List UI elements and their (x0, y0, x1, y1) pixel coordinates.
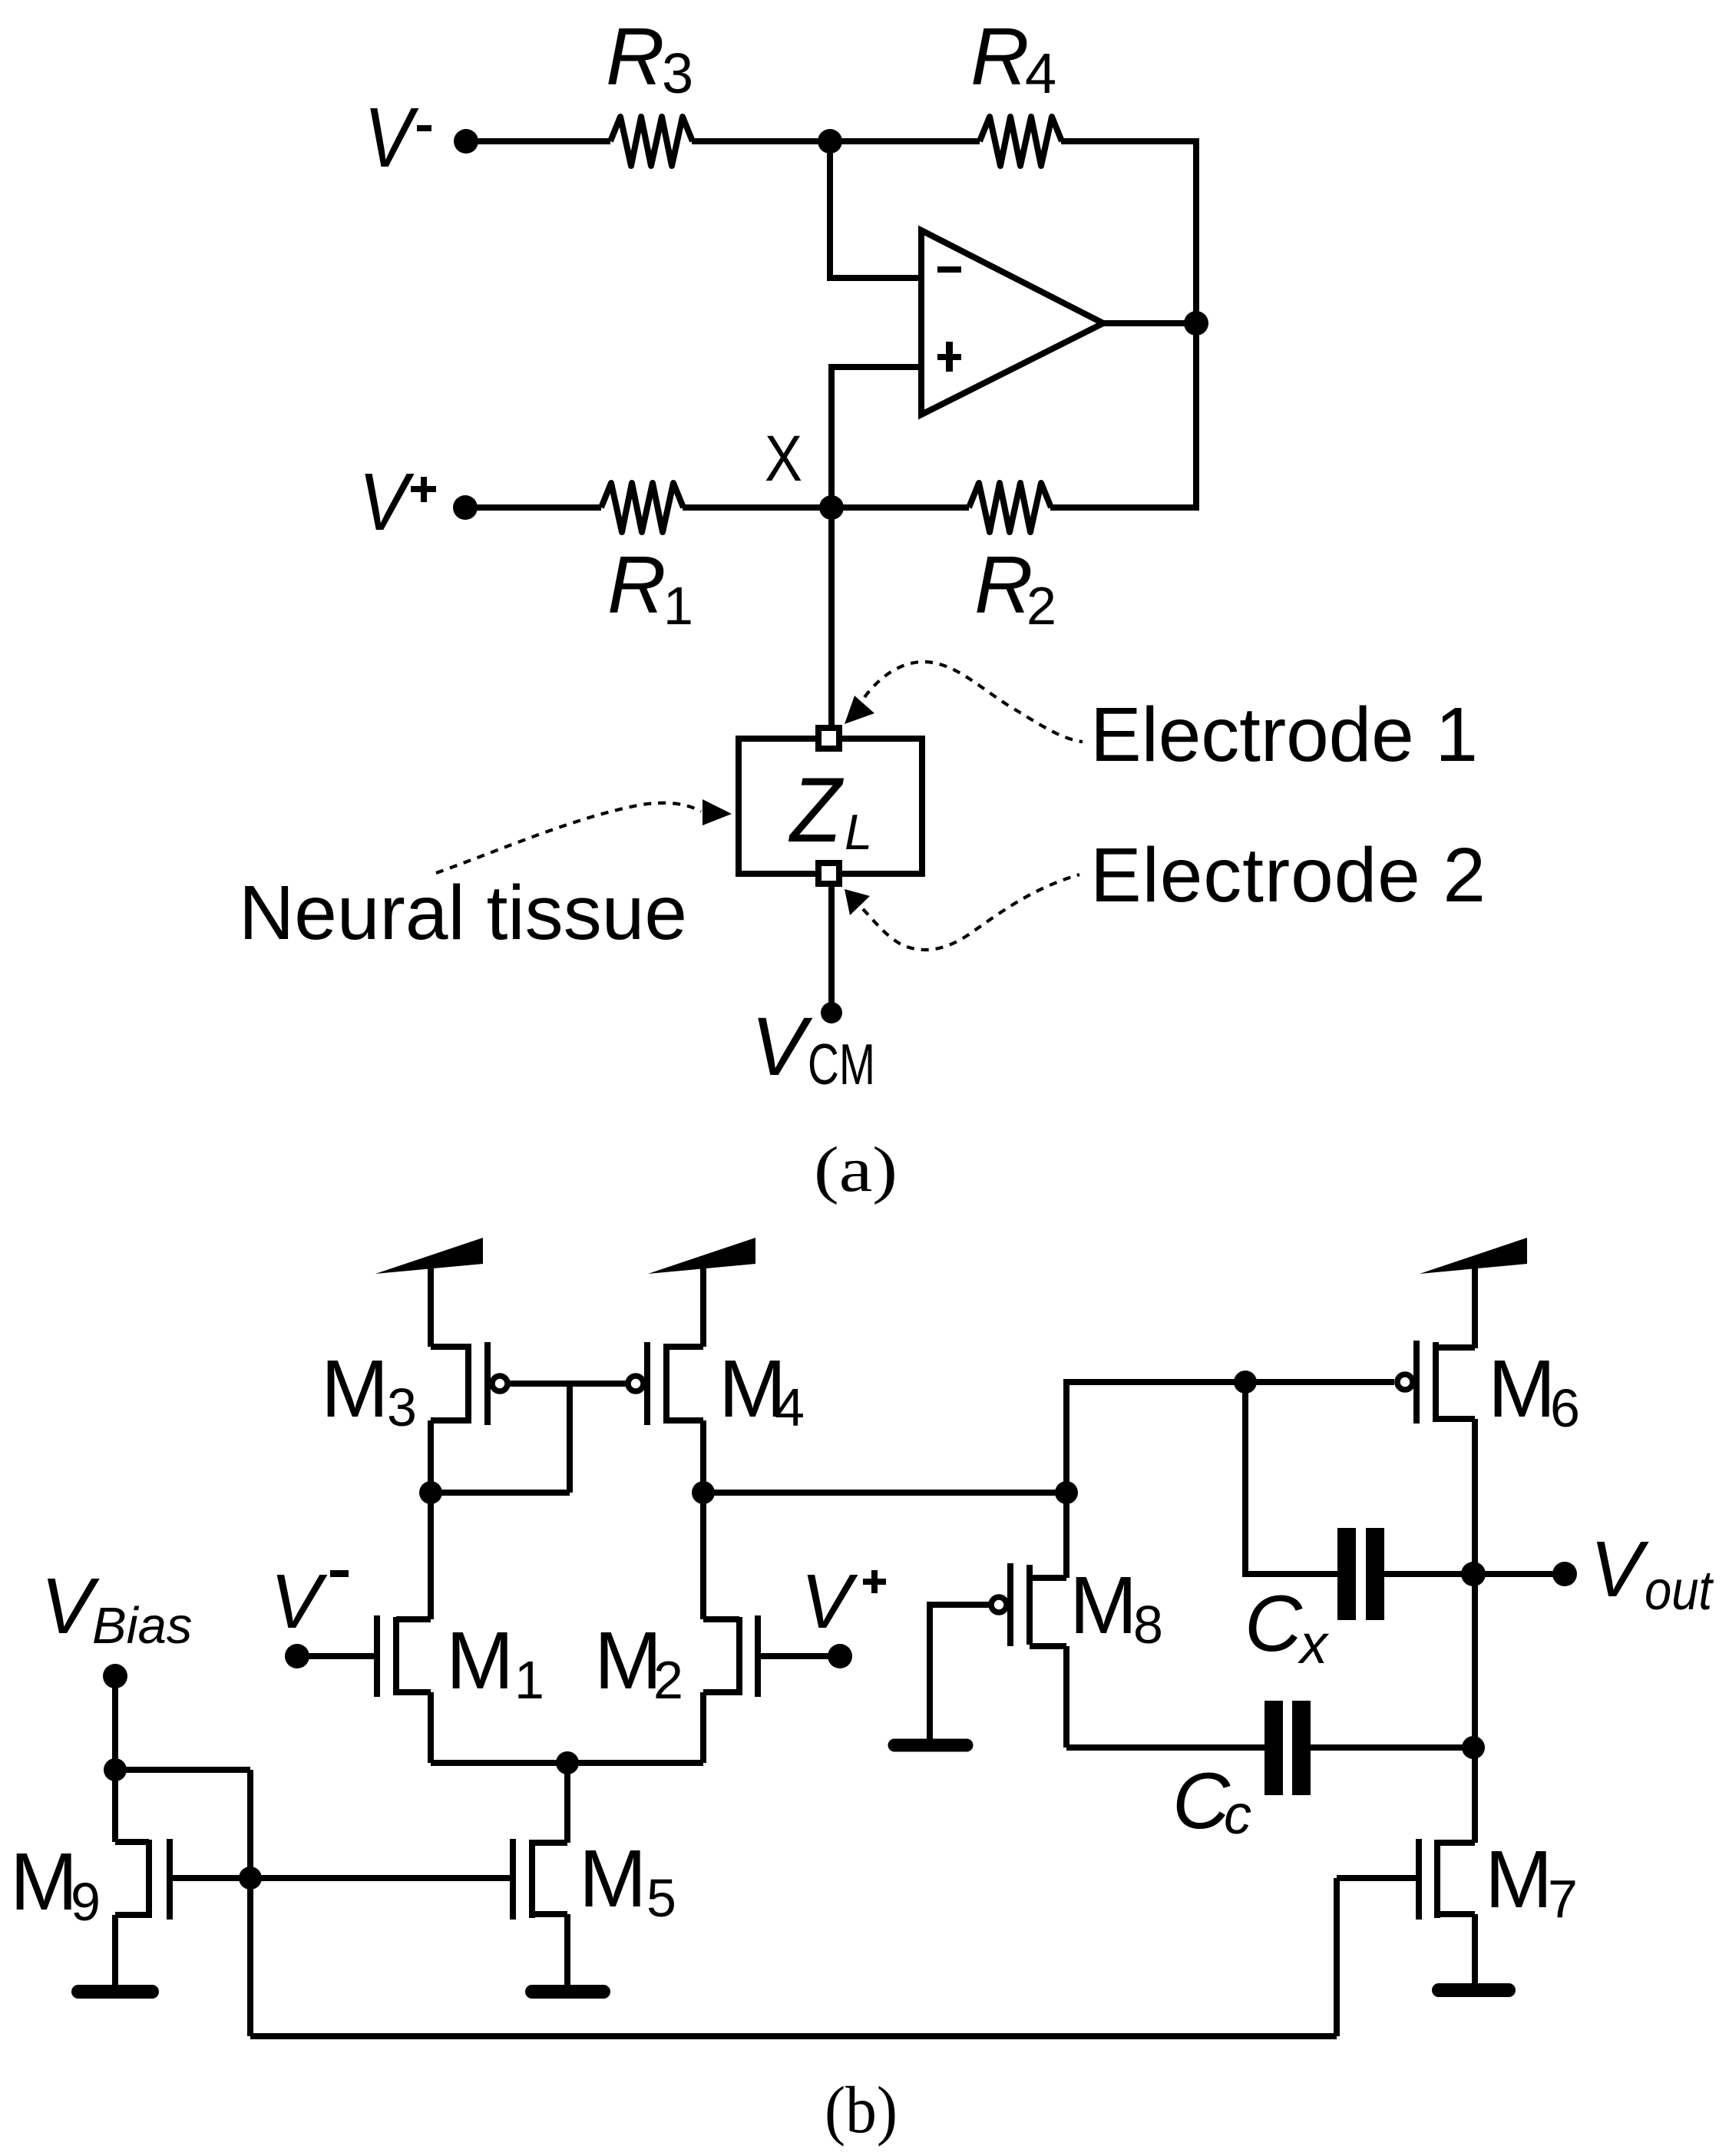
ground under M7 (1439, 1983, 1509, 1997)
wire M9 drain to gate column (115, 1767, 250, 1773)
wire tail to M5 (564, 1763, 570, 1843)
load box Z_L (739, 739, 922, 874)
label M6 (1488, 1344, 1580, 1438)
label M3 (321, 1344, 417, 1437)
pointer to neural tissue (703, 799, 732, 825)
wire node up and to M6 gate (1066, 1382, 1394, 1493)
M7 gate wire (1337, 1875, 1417, 1881)
svg-text:V: V (364, 91, 419, 185)
wire M3 gate to M4 gate (508, 1381, 627, 1387)
svg-text:M: M (10, 1837, 78, 1927)
bias rail (250, 2033, 1337, 2039)
transistor M7 (1416, 1839, 1422, 1920)
pointer to electrode 2 (845, 889, 870, 915)
svg-text:6: 6 (1550, 1378, 1580, 1438)
svg-text:9: 9 (71, 1872, 101, 1932)
transistor M8 (991, 1597, 1007, 1612)
label M7 (1485, 1834, 1578, 1929)
svg-text:Bias: Bias (92, 1597, 192, 1655)
VDD symbol above M4 (648, 1238, 755, 1274)
wire M1 source down (428, 1692, 434, 1763)
node M3 drain (419, 1481, 442, 1504)
label Cc (1172, 1757, 1251, 1846)
label Vout (1590, 1525, 1714, 1622)
ground under M5 (532, 1985, 603, 1999)
wire down to Cx (1245, 1382, 1337, 1574)
svg-text:C: C (1245, 1579, 1303, 1668)
svg-text:x: x (1298, 1614, 1330, 1675)
svg-text:7: 7 (1548, 1869, 1578, 1929)
svg-text:3: 3 (662, 41, 693, 105)
Cc output node (1462, 1736, 1485, 1759)
svg-text:V: V (359, 457, 415, 547)
wire node to op-amp inverting input (830, 141, 921, 278)
label M8 (1069, 1560, 1163, 1655)
transistor M5 (510, 1839, 516, 1920)
svg-text:R: R (970, 12, 1030, 102)
svg-text:out: out (1645, 1560, 1714, 1622)
Vout node (1461, 1562, 1486, 1586)
transistor M1 (374, 1615, 380, 1697)
label M1 (446, 1615, 544, 1710)
wire Cc to output column (1311, 1744, 1473, 1751)
capacitor Cc (1265, 1701, 1283, 1795)
wire to Vout terminal (1473, 1571, 1565, 1577)
wire V- to R3 (466, 138, 610, 144)
label R1 (607, 540, 693, 636)
svg-text:M: M (579, 1834, 646, 1924)
wire M3 drain vertical (428, 1420, 434, 1619)
svg-text:M: M (1069, 1560, 1137, 1651)
terminal V+ (a) (453, 495, 478, 520)
svg-text:c: c (1224, 1784, 1251, 1846)
transistor M9 (167, 1839, 173, 1920)
terminal V- (b) (285, 1644, 309, 1668)
svg-text:1: 1 (514, 1650, 544, 1710)
svg-text:2: 2 (653, 1650, 683, 1710)
label M4 (719, 1344, 805, 1437)
svg-text:V: V (801, 1559, 858, 1645)
wire VBias down (112, 1676, 118, 1842)
wire gate tie down to drain line (567, 1384, 573, 1493)
wire op-amp output (1103, 320, 1196, 326)
tail wire (431, 1760, 703, 1766)
wire M3 drain to gate tie (431, 1490, 570, 1496)
wire M8 drain up (1063, 1493, 1069, 1578)
svg-text:V: V (270, 1559, 328, 1645)
svg-text:3: 3 (387, 1377, 417, 1437)
wire V+ to R1 (465, 504, 601, 511)
svg-text:8: 8 (1133, 1595, 1163, 1655)
svg-text:M: M (594, 1615, 662, 1706)
svg-text:Electrode 1: Electrode 1 (1090, 692, 1478, 778)
svg-text:2: 2 (1026, 576, 1056, 636)
op-amp U1 (921, 230, 1103, 415)
terminal VCM (821, 1002, 842, 1023)
wire M4 drain vertical (700, 1420, 706, 1619)
svg-text:M: M (1485, 1834, 1552, 1925)
wire node to R4 (830, 138, 980, 144)
terminal Vout (1552, 1562, 1577, 1586)
wire M8 source down (1063, 1646, 1069, 1748)
resistor R2 (969, 483, 1051, 532)
pointer to electrode 1 (845, 696, 874, 724)
label M9 (10, 1837, 101, 1932)
terminal VBias (103, 1664, 127, 1688)
svg-text:V: V (1590, 1525, 1649, 1613)
svg-text:5: 5 (646, 1868, 676, 1928)
node X (819, 495, 844, 520)
wire Cx to Vout node (1384, 1571, 1473, 1577)
svg-text:M: M (1488, 1344, 1555, 1434)
label M2 (594, 1615, 683, 1710)
wire M7 source to ground (1472, 1914, 1478, 1983)
svg-text:R: R (974, 540, 1033, 630)
svg-text:Z: Z (788, 759, 844, 861)
wire M2 source down (700, 1692, 706, 1763)
tail node (556, 1751, 579, 1774)
wire R1 to R2 through X (683, 504, 969, 511)
svg-text:L: L (845, 804, 872, 860)
transistor M4 (628, 1376, 643, 1391)
M8 gate wire to ground (930, 1605, 990, 1739)
label M5 (579, 1834, 676, 1928)
wire output to R2 (1050, 323, 1196, 508)
electrode 1 square (818, 728, 839, 749)
bias gate line M9-M5 (170, 1875, 513, 1881)
label VBias (41, 1562, 192, 1655)
svg-text:M: M (321, 1344, 388, 1434)
ground under M9 (78, 1985, 152, 1999)
svg-text:Electrode 2: Electrode 2 (1090, 832, 1486, 918)
VDD symbol above M3 (375, 1238, 483, 1274)
label VCM (751, 1000, 875, 1096)
node to Cx branch (1234, 1371, 1257, 1394)
wire X to electrode 1 (828, 508, 835, 726)
terminal V+ (b) (828, 1644, 852, 1668)
wire M6 drain down to M7 (1472, 1419, 1478, 1843)
label Cx (1245, 1579, 1330, 1675)
wire M8 to Cc (1066, 1744, 1265, 1751)
output node dot (1184, 311, 1208, 336)
svg-text:4: 4 (1025, 41, 1056, 105)
capacitor Cx (1337, 1528, 1356, 1620)
label R2 (974, 540, 1056, 636)
svg-text:V: V (41, 1562, 100, 1650)
svg-text:X: X (765, 422, 802, 494)
resistor R3 (610, 117, 693, 166)
transistor M3 (431, 1344, 468, 1350)
wire R3 to node (692, 138, 830, 144)
label R3 (606, 12, 693, 105)
terminal V- (a) (454, 129, 478, 154)
svg-text:V: V (751, 1000, 813, 1093)
svg-text:M: M (446, 1615, 514, 1706)
transistor M6 (1397, 1374, 1413, 1390)
label R4 (970, 12, 1056, 105)
svg-text:Neural tissue: Neural tissue (239, 870, 687, 956)
resistor R4 (980, 117, 1062, 166)
svg-text:(a): (a) (814, 1134, 898, 1205)
svg-text:R: R (607, 540, 666, 630)
wire gate column down (247, 1770, 253, 2036)
transistor M2 (755, 1615, 761, 1697)
node M9 drain (104, 1758, 127, 1781)
wire op-amp noninverting input to node X (831, 367, 921, 508)
wire M5 source to ground (564, 1914, 570, 1985)
svg-text:R: R (606, 12, 665, 102)
node M4 drain (692, 1481, 715, 1504)
wire M4 drain to second stage (703, 1490, 1066, 1496)
wire R4 to feedback corner (1061, 141, 1196, 323)
ground at M8 gate (894, 1739, 967, 1752)
electrode 2 square (818, 863, 839, 884)
svg-text:1: 1 (663, 576, 693, 636)
wire electrode 2 to VCM (828, 885, 835, 1013)
svg-text:4: 4 (775, 1377, 805, 1437)
node on bias gate line (239, 1867, 262, 1890)
junction top node (818, 129, 842, 154)
VDD symbol above M6 (1420, 1238, 1527, 1274)
resistor R1 (601, 483, 683, 532)
wire M9 source to ground (112, 1915, 118, 1985)
svg-text:C: C (1172, 1757, 1231, 1846)
svg-text:(b): (b) (825, 2072, 898, 2147)
wire M7 gate down to bias rail (1334, 1878, 1340, 2036)
svg-text:CM: CM (808, 1032, 875, 1096)
second stage input node (1055, 1481, 1078, 1504)
label Z_L (788, 759, 872, 861)
